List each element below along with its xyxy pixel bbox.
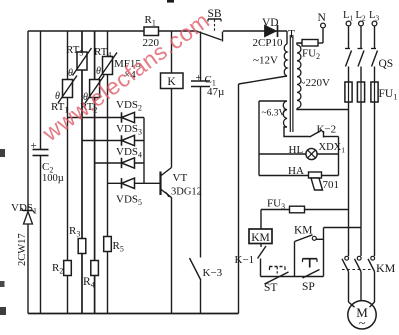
fuse FU1 pole 1: [345, 82, 352, 102]
wire C2 branch lower: [40, 156, 42, 314]
svg-text:VT: VT: [173, 172, 188, 184]
svg-text:2CW17: 2CW17: [17, 233, 28, 266]
wire L1 to QS: [348, 26, 350, 49]
wire FU2 to N riser: [318, 42, 323, 44]
fuse FU1 pole 3: [371, 82, 378, 102]
resistor R1 220: [144, 27, 159, 36]
svg-text:701: 701: [323, 179, 340, 191]
winding 12V secondary: [284, 44, 287, 76]
lamp HL XDX1: [306, 148, 317, 159]
wire L2 to QS: [360, 26, 362, 49]
svg-text:VD: VD: [262, 17, 279, 29]
winding 220V primary: [297, 45, 301, 108]
auxiliary contact KM: [294, 242, 296, 277]
svg-text:QS: QS: [379, 58, 394, 70]
wire diode common rail: [143, 118, 145, 184]
wire R3 to ground bus: [81, 254, 83, 314]
mechanical link KM: [342, 269, 372, 271]
wire RT2 branch top: [94, 31, 96, 80]
svg-text:~: ~: [359, 316, 366, 330]
scan mark top: [167, 0, 174, 3]
wire RT4 to R5: [107, 75, 109, 237]
switch blade ST: [265, 272, 289, 284]
svg-text:+: +: [31, 140, 37, 152]
wire R4 to ground bus: [94, 276, 96, 314]
svg-text:K−1: K−1: [235, 254, 255, 266]
wire L3 to QS: [374, 26, 376, 49]
wire RT1 branch top: [67, 31, 69, 80]
resistor R3: [78, 239, 86, 254]
wire SB node down to C1: [200, 32, 202, 82]
svg-text:SP: SP: [302, 281, 315, 293]
wire to buzzer HA: [259, 175, 309, 177]
diode VDS4: [122, 158, 135, 168]
svg-text:~220V: ~220V: [300, 77, 330, 89]
svg-text:+: +: [196, 72, 202, 84]
wire control to L2: [324, 227, 362, 229]
thermistor RT2: [90, 80, 100, 98]
terminal L2: [359, 21, 364, 26]
wire VDS1 branch lower: [27, 224, 29, 314]
svg-text:KM: KM: [376, 261, 396, 275]
terminal L1: [346, 21, 351, 26]
wire into 12V winding: [286, 31, 288, 44]
svg-text:HA: HA: [288, 165, 304, 177]
svg-text:KM: KM: [294, 225, 313, 237]
scan mark left 2: [0, 281, 5, 287]
diode VDS5: [122, 178, 135, 188]
wire bottom ground bus: [28, 313, 239, 315]
wire RT3 branch top: [81, 31, 83, 52]
diode VD 2CP10: [265, 25, 277, 37]
wire RT2 to R4: [94, 98, 96, 261]
transformer T core: [289, 35, 291, 132]
svg-text:θ: θ: [68, 68, 73, 79]
capacitor C1 47u: [191, 80, 210, 82]
svg-text:47µ: 47µ: [207, 86, 224, 98]
resistor R5: [104, 237, 112, 252]
winding 6.3V secondary: [283, 101, 287, 127]
switch QS pole 2: [358, 48, 363, 50]
svg-text:N: N: [318, 12, 327, 24]
contactor main contacts KM: [345, 256, 349, 260]
capacitor C2 100u: [33, 149, 49, 151]
wire 6.3V top to lamp branch: [259, 100, 287, 102]
svg-text:2CP10: 2CP10: [253, 37, 283, 49]
wire L2 drop: [360, 102, 362, 256]
thermistor RT4: [103, 57, 113, 75]
wire L1 drop: [348, 102, 350, 256]
fuse FU2: [302, 40, 318, 47]
wire primary top to FU2: [297, 43, 302, 45]
wire VDS5 tap / base wire: [108, 182, 161, 184]
scan mark left 1: [0, 149, 5, 157]
wire R5 to ground bus: [107, 252, 109, 314]
buzzer HA 701: [309, 172, 322, 178]
switch contact K-1: [260, 244, 262, 248]
pushbutton ST: [270, 266, 286, 268]
wire lamp/buzzer right rail: [338, 137, 340, 176]
wire primary bottom to L1: [297, 108, 349, 109]
wire FU3 to L1: [305, 209, 349, 211]
wire emitter to ground bus: [171, 198, 173, 314]
svg-text:~6.3V: ~6.3V: [262, 109, 286, 119]
wire contact1 to motor: [348, 272, 350, 303]
wire aux to right riser: [316, 238, 323, 240]
svg-text:100µ: 100µ: [42, 173, 64, 184]
wire RT4 branch top: [107, 31, 109, 57]
resistor R2: [64, 261, 72, 276]
wire control right riser: [323, 228, 325, 277]
switch contact K-3: [190, 258, 202, 281]
transistor VT 3DG12: [159, 172, 161, 196]
fuse FU1 pole 2: [357, 82, 364, 102]
wire 12V winding bottom to riser: [239, 76, 288, 84]
thermistor RT3: [77, 52, 87, 70]
terminal L3: [372, 21, 377, 26]
wire 12V return riser: [238, 84, 240, 314]
wire VDS2 tap: [68, 117, 145, 119]
resistor R4: [91, 261, 99, 276]
wire VDS3 tap: [82, 140, 144, 142]
switch blade SP: [303, 270, 320, 279]
wire R1 node to relay K: [171, 31, 173, 73]
svg-text:ST: ST: [264, 282, 277, 294]
contact SB fixed: [222, 32, 224, 42]
svg-text:~12V: ~12V: [253, 55, 278, 67]
wire VDS4 tap: [95, 162, 144, 164]
wire contact2 to motor: [360, 272, 362, 301]
svg-text:KM: KM: [251, 232, 270, 244]
svg-text:XDX1: XDX1: [319, 142, 346, 155]
wire L3 drop: [374, 102, 376, 256]
scan mark left 3: [0, 307, 6, 315]
wire RT3 to R3: [81, 70, 83, 239]
relay coil K: [161, 73, 184, 89]
wire control bottom: [261, 276, 324, 278]
svg-text:HL: HL: [289, 144, 304, 156]
wire QS to FU1: [348, 67, 350, 83]
wire N riser: [322, 28, 324, 43]
zener diode VDS1 2CW17: [24, 212, 33, 225]
wire RT1 to R2: [67, 98, 69, 261]
svg-text:T: T: [288, 29, 295, 41]
switch QS pole 3: [371, 48, 376, 50]
wire to lamp HL: [259, 153, 306, 155]
svg-text:K−2: K−2: [317, 124, 337, 136]
wire C1 to K-3: [200, 87, 202, 258]
wire KM coil node to FU3: [261, 209, 290, 211]
svg-text:θ: θ: [96, 66, 101, 77]
wire QS to FU1: [360, 67, 362, 83]
wire VDS1 branch upper: [27, 31, 29, 211]
motor M: [348, 301, 376, 329]
wire K-1 down: [260, 259, 262, 277]
diode VDS3: [122, 135, 135, 145]
svg-text:K: K: [167, 76, 176, 88]
pushbutton SP: [303, 258, 318, 260]
wire lamp to right rail: [317, 153, 338, 155]
wire contact3 to motor: [374, 272, 376, 303]
switch blade SB: [198, 32, 222, 41]
wire K-2 to right rail: [324, 136, 339, 138]
fuse FU3: [290, 206, 305, 213]
wire lamp/buzzer left rail: [258, 101, 260, 176]
wire top supply bus: [28, 30, 144, 32]
switch QS pole 1: [345, 48, 350, 50]
svg-text:SB: SB: [208, 8, 222, 20]
wire K to collector: [171, 89, 173, 168]
contactor coil KM: [249, 229, 272, 244]
wire down to KM coil: [260, 210, 262, 230]
wire QS to FU1: [374, 67, 376, 83]
svg-text:3DG12: 3DG12: [171, 187, 202, 198]
wire buzzer to right rail: [322, 175, 339, 177]
thermistor RT1: [63, 80, 73, 98]
wire C2 branch upper: [40, 31, 42, 150]
wire 6.3V bottom to K-2: [284, 127, 310, 137]
diode VDS2: [122, 112, 135, 122]
wire K-3 to ground bus: [200, 281, 202, 314]
wire R1 to SB node: [159, 30, 198, 32]
switch contact K-2: [310, 130, 323, 137]
wire R2 to ground bus: [67, 276, 69, 314]
svg-text:K−3: K−3: [203, 267, 223, 279]
terminal N: [321, 23, 326, 28]
wire SB to VD: [223, 30, 287, 32]
